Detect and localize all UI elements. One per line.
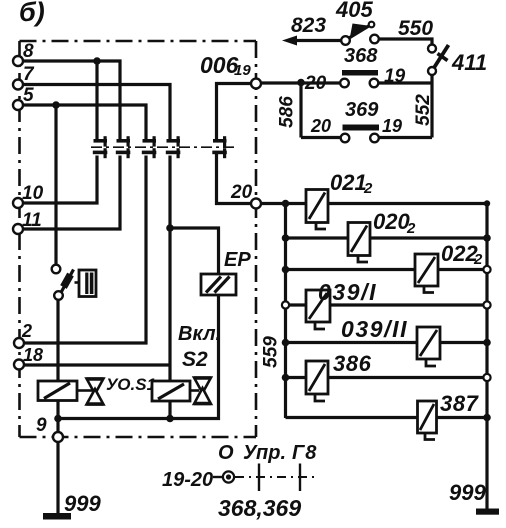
coil EP diagonals [206, 277, 230, 293]
wire 586 corner to contact 369 [301, 136, 341, 139]
wire relay 039-I to right rail [330, 303, 487, 306]
wire terminal 9 to ground [56, 442, 59, 515]
junction on X4 wire feeding valve EP [166, 224, 174, 232]
svg-text:039/II: 039/II [341, 316, 408, 342]
connector plane dash-dot line [91, 146, 236, 148]
svg-text:9: 9 [36, 415, 47, 436]
switch S blade [61, 270, 74, 293]
wire relay 020 to right rail [370, 236, 487, 239]
dashed enclosure bottom edge [20, 436, 257, 439]
relay 021 coil [306, 190, 328, 230]
arrowhead 823 [282, 36, 297, 46]
junction circle right rail row 039-I [483, 301, 490, 308]
wire terminal5 to connector X3 [23, 105, 146, 139]
svg-text:386: 386 [333, 351, 372, 376]
switch 405 blade [349, 26, 370, 39]
wire relay 387 to right rail [437, 416, 488, 419]
switch 411 handle tick [438, 54, 448, 61]
svg-text:О: О [218, 442, 234, 464]
callout tick 1 [258, 464, 260, 492]
svg-text:Вкл.: Вкл. [178, 323, 221, 345]
wire connector X2 to terminal 11 [23, 156, 120, 230]
wire terminal7 to connector X4 [23, 85, 170, 140]
wire rail to relay 020 [286, 236, 349, 239]
wire terminal8 to connector X2 [23, 61, 120, 139]
switch 411 blade [434, 45, 449, 69]
wire junction to EP coil top [170, 228, 219, 274]
connector X4 [166, 136, 181, 158]
terminal 2 [14, 338, 24, 348]
wire 586 vertical [299, 83, 302, 138]
relay 020 coil [348, 223, 370, 263]
contact 368 right pin [370, 79, 379, 88]
switch S lower contact [54, 291, 63, 300]
wire contact 369 to 552 [379, 136, 432, 139]
svg-text:369: 369 [345, 99, 379, 121]
svg-text:020: 020 [373, 209, 410, 234]
svg-text:19: 19 [234, 62, 251, 79]
wire junction8 down to connector X1 [95, 61, 98, 139]
switch 405 pivot contact [341, 36, 350, 45]
svg-text:2: 2 [21, 321, 32, 341]
wire rail bottom to relay 387 [286, 416, 418, 419]
svg-text:2: 2 [363, 180, 373, 197]
switch detent box [79, 270, 96, 297]
svg-text:Упр.: Упр. [243, 442, 286, 464]
svg-text:7: 7 [23, 64, 35, 85]
svg-text:10: 10 [22, 183, 44, 204]
connector X5 [212, 136, 227, 158]
terminal 11 [13, 224, 23, 234]
switch S blade barb [64, 275, 71, 288]
junction right rail row 387 [483, 414, 491, 422]
svg-text:405: 405 [335, 0, 373, 22]
junction right rail top corner [484, 200, 490, 206]
left distribution rail 559 [284, 204, 287, 419]
connector X2 [116, 136, 131, 158]
ground left [43, 513, 71, 520]
svg-text:20: 20 [230, 182, 253, 203]
switch detent inner bar 1 [85, 273, 88, 295]
contact 368 left pin [340, 79, 349, 88]
wire connector X5 to terminal 20 [217, 154, 252, 204]
wire terminal 006 to contact 368 [261, 81, 340, 84]
terminal 8 [13, 56, 23, 66]
junction rail row 386 [282, 374, 290, 382]
wire S1 coil bottom to terminal 9 [56, 401, 59, 433]
callout tick 2 [299, 464, 301, 492]
wire 411 lower contact down [430, 75, 433, 83]
switch 405 blade tip circle [369, 22, 375, 28]
contact 369 bridge bar [343, 125, 380, 131]
terminal 9 [53, 432, 63, 442]
relay 387 coil [418, 401, 437, 440]
svg-text:586: 586 [277, 96, 298, 128]
svg-text:368,369: 368,369 [218, 495, 301, 521]
wire relay 386 to right rail [328, 376, 487, 379]
relay 039-II coil [417, 327, 440, 366]
junction right rail row 020 [483, 234, 491, 242]
valve S1 stub [77, 389, 92, 392]
junction right rail row 039-II [483, 339, 491, 347]
wire junction5 down to switch upper contact [54, 105, 57, 265]
contact 369 left pin [341, 134, 350, 143]
valve S1 hourglass [87, 379, 104, 405]
connector X3 [142, 136, 157, 158]
wire rail to relay 386 [286, 376, 307, 379]
svg-text:8: 8 [23, 41, 34, 62]
wire switch to coil S1 [56, 300, 59, 381]
svg-text:999: 999 [449, 480, 486, 505]
wire terminal 006-19 to connector X5 [217, 84, 252, 140]
svg-text:559: 559 [261, 336, 282, 368]
wire relay 021 to right rail [328, 202, 487, 205]
svg-text:039/I: 039/I [318, 279, 377, 305]
dashed enclosure left edge [18, 41, 21, 437]
junction 586 branch [297, 79, 305, 87]
wire rail to relay 039-I [286, 303, 307, 306]
svg-text:823: 823 [291, 14, 326, 37]
svg-text:S2: S2 [182, 348, 208, 371]
junction circle right rail row 022 [483, 266, 490, 273]
wire connector X4 down to coil S2 [168, 156, 171, 382]
wire EP coil bottom to ground bus [58, 295, 219, 419]
callout circle center dot [226, 474, 231, 479]
junction left rail top [282, 200, 290, 208]
ground right [476, 509, 499, 515]
wire terminal 20 to relay 021 [261, 202, 306, 205]
relay 386 coil [306, 361, 328, 401]
wire S2 coil bottom [168, 402, 171, 419]
valve S2 hourglass [194, 378, 211, 405]
terminal 20 [251, 199, 261, 209]
terminal 10 [13, 198, 23, 208]
wire 823 with arrow [289, 39, 342, 42]
wire relay 039-II to right rail [440, 341, 487, 344]
wire relay 022 to right rail [438, 268, 487, 271]
svg-text:2: 2 [473, 251, 483, 268]
wire right rail to ground [485, 418, 488, 511]
svg-text:387: 387 [440, 391, 480, 416]
junction circle right rail row 386 [483, 374, 490, 381]
svg-text:021: 021 [330, 170, 367, 195]
junction on wire 5 feeding switch [52, 101, 60, 109]
svg-text:18: 18 [23, 345, 43, 365]
svg-text:550: 550 [398, 17, 433, 40]
junction rail row 020 [282, 234, 290, 242]
callout lead line [213, 476, 222, 478]
dashed enclosure top edge [20, 40, 257, 43]
terminal 7 [13, 80, 23, 90]
svg-text:5: 5 [23, 85, 34, 106]
svg-text:022: 022 [441, 241, 478, 266]
valve S2 stub [190, 389, 199, 392]
svg-text:ЕР: ЕР [224, 249, 251, 271]
callout circle marker [223, 471, 234, 482]
svg-text:19-20: 19-20 [162, 469, 213, 491]
svg-text:20: 20 [304, 73, 327, 94]
coil S2 diagonal [158, 384, 184, 399]
terminal 5 [13, 100, 23, 110]
wire 550 [379, 39, 432, 44]
connector X1 [93, 136, 108, 158]
wire rail to relay 022 [286, 268, 416, 271]
wire contact 368 to 411 [379, 81, 433, 84]
svg-text:368: 368 [344, 45, 378, 67]
relay 039-I coil [306, 290, 330, 329]
callout dash-dot line [235, 476, 315, 478]
terminal 18 [14, 360, 24, 370]
svg-text:411: 411 [451, 50, 487, 75]
junction rail row 022 [282, 266, 290, 274]
coil EP [201, 274, 236, 295]
svg-text:19: 19 [382, 116, 402, 136]
svg-text:552: 552 [413, 94, 434, 126]
coil S2 [152, 381, 190, 401]
svg-text:999: 999 [64, 491, 101, 516]
coil S1 [38, 381, 77, 401]
contact 368 bridge bar [342, 70, 378, 76]
relay 022 coil [415, 254, 438, 293]
terminal 006-19 [251, 79, 261, 89]
wire rail to relay 039-II [286, 341, 418, 344]
switch detent inner bar 2 [90, 273, 94, 295]
wire terminal 18 to S2 feed [24, 363, 170, 366]
wire 552 vertical [430, 83, 433, 138]
junction circle rail row 039-I [282, 301, 289, 308]
svg-text:11: 11 [22, 210, 42, 231]
junction rail row 039-II [282, 339, 290, 347]
svg-text:2: 2 [406, 220, 416, 237]
svg-text:УО.S1: УО.S1 [106, 375, 156, 394]
svg-text:20: 20 [310, 116, 331, 136]
coil S1 diagonal [44, 383, 70, 399]
wire connector X1 to terminal 10 [23, 156, 97, 204]
svg-text:Г8: Г8 [292, 442, 317, 464]
junction on wire 8 feeding connector X1 [93, 57, 101, 65]
wire connector X3 to terminal 2 [24, 156, 146, 344]
junction S1 coil bottom on ground bus [54, 415, 62, 423]
junction S2 coil bottom on ground bus [166, 415, 174, 423]
contact 369 right pin [370, 134, 379, 143]
switch S upper contact [52, 265, 61, 274]
svg-text:б): б) [19, 0, 45, 27]
switch 411 lower contact [428, 67, 436, 75]
right rail [485, 204, 488, 418]
switch detent stub [75, 281, 80, 284]
switch 405 blade barb [350, 24, 368, 40]
svg-text:006: 006 [200, 52, 239, 78]
switch 405 right contact [370, 35, 379, 44]
dashed enclosure right edge [255, 41, 258, 437]
switch 411 upper contact [428, 45, 436, 53]
